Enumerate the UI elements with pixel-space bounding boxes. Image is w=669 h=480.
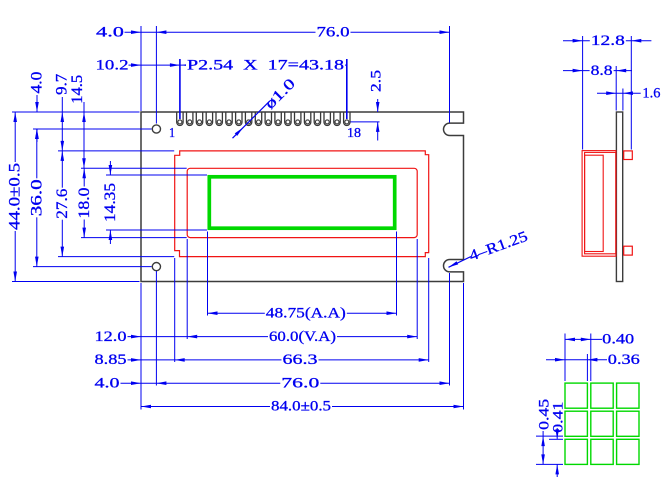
pin 1 — [177, 112, 183, 125]
dim 8.8 (bezel to pcb face) — [563, 70, 632, 72]
bezel tab bottom (side view) — [624, 246, 633, 255]
dim 60.0(V.A) — [187, 336, 417, 338]
pin 5 — [216, 112, 222, 125]
svg-text:P2.54 X 17=43.18: P2.54 X 17=43.18 — [187, 57, 344, 73]
dim 27.6 (bezel height) — [61, 151, 63, 257]
dim 14.35 (A.A. height) — [109, 161, 111, 175]
LCD bezel outline (outer red, 66.3 x 27.6) — [175, 151, 429, 257]
pin 4 — [206, 112, 212, 125]
extension line right slot (top) — [449, 26, 451, 123]
extension line bezel left (side top) — [582, 36, 584, 150]
pixel dot r1c1 — [565, 383, 587, 408]
pin 16 — [324, 112, 330, 125]
extension line V.A. bottom (left) — [81, 237, 187, 239]
svg-text:10.2: 10.2 — [96, 57, 129, 73]
dim 8.85 (left edge to bezel) — [128, 359, 175, 361]
pin 3 — [196, 112, 202, 125]
extension line bezel right (bottom) — [428, 258, 430, 362]
pin 17 — [334, 112, 340, 125]
extension line A.A. left (bottom) — [207, 232, 209, 316]
dim 44.0+-0.5 (pcb height) — [14, 112, 16, 282]
extension line bezel bottom (left) — [58, 256, 174, 258]
extension line A.A. bottom (left) — [106, 229, 207, 231]
leader dia 1.0 (pin hole diameter) — [233, 101, 270, 138]
extension line PCB left edge (top) — [140, 26, 142, 111]
extension line pcb right face (side) — [622, 89, 624, 111]
pin 2 — [187, 112, 193, 125]
extension line bezel top (left) — [58, 150, 174, 152]
extension line dot col1 left — [564, 334, 566, 382]
PCB outline (front view, 84.0 x 44.0) with edge slot notches — [141, 112, 464, 282]
extension line PCB bottom edge (left) — [12, 281, 140, 283]
dim 4.0 (left edge to hole, bottom) — [121, 382, 157, 384]
extension line dot col2 left — [590, 334, 592, 382]
dim 4.0 vertical (top edge to hole) — [36, 95, 38, 112]
svg-text:1.6: 1.6 — [642, 85, 660, 101]
svg-text:14.5: 14.5 — [69, 75, 86, 104]
svg-text:36.0: 36.0 — [28, 179, 45, 216]
dim 66.3 (bezel width) — [175, 359, 429, 361]
pin 13 — [295, 112, 301, 125]
svg-text:1: 1 — [169, 126, 175, 141]
svg-text:4.0: 4.0 — [96, 24, 124, 40]
dim 4.0 (left edge to hole, top row) — [125, 31, 157, 33]
svg-text:4–R1.25: 4–R1.25 — [467, 229, 530, 265]
svg-text:8.8: 8.8 — [591, 63, 613, 79]
svg-text:60.0(V.A): 60.0(V.A) — [269, 329, 336, 345]
svg-text:0.36: 0.36 — [608, 352, 641, 368]
dim 76.0 (hole to slot, bottom) — [156, 382, 449, 384]
extension line dot col1 right — [586, 354, 588, 381]
pin 8 — [245, 112, 251, 125]
pin 18 — [344, 112, 350, 125]
pixel dot r2c3 — [617, 411, 639, 436]
mounting hole top-left — [152, 125, 160, 133]
extension line tab right (side top) — [630, 36, 632, 150]
svg-text:66.3: 66.3 — [283, 352, 318, 368]
svg-text:0.40: 0.40 — [602, 332, 634, 348]
dim 14.5 (top edge to V.A.) — [83, 102, 85, 168]
svg-text:48.75(A.A): 48.75(A.A) — [266, 305, 346, 321]
pin 9 — [255, 112, 261, 125]
svg-text:4.0: 4.0 — [95, 375, 120, 391]
svg-text:8.85: 8.85 — [95, 352, 127, 368]
svg-text:18.0: 18.0 — [76, 188, 93, 219]
extension line bezel left (bottom) — [174, 258, 176, 362]
extension line A.A. right (bottom) — [396, 232, 398, 316]
dim 9.7 (top edge to bezel) — [61, 97, 63, 151]
extension line dot row3 bottom — [536, 463, 563, 465]
active area A.A. (green, 48.75 x 14.35) — [209, 177, 394, 228]
svg-text:0.41: 0.41 — [551, 402, 567, 433]
svg-text:76.0: 76.0 — [281, 375, 319, 391]
dim 0.41 (dot height) — [556, 428, 558, 439]
extension line A.A. top (left) — [106, 174, 207, 176]
extension line V.A. right (bottom) — [416, 239, 418, 339]
dim 0.36 (dot width) — [546, 359, 607, 361]
svg-text:76.0: 76.0 — [317, 24, 350, 40]
pixel dot r1c3 — [617, 383, 639, 408]
extension line left hole center (top) — [155, 26, 157, 124]
dim 12.8 (module total thickness) — [563, 40, 651, 42]
mounting hole bottom-left — [152, 263, 160, 271]
extension line dot row2 bottom — [536, 435, 563, 437]
pin 14 — [304, 112, 310, 125]
PCB side view (1.6 thick) — [616, 112, 622, 282]
dim 1.6 (pcb thickness) — [597, 92, 641, 94]
LCD bezel side view inner wall — [585, 152, 616, 253]
LCD glass cavity side view — [585, 155, 604, 251]
pixel dot r2c2 — [591, 411, 613, 436]
svg-text:12.0: 12.0 — [95, 329, 127, 345]
dim 0.40 (dot pitch horizontal) — [565, 338, 602, 340]
bezel tab top (side view) — [624, 151, 633, 160]
pin 7 — [236, 112, 242, 125]
extension line PCB right (bottom) — [463, 283, 465, 410]
extension line pin 1 center — [179, 59, 181, 119]
pin 6 — [226, 112, 232, 125]
pixel dot r2c1 — [565, 411, 587, 436]
dim 76.0 (hole to slot, top row) — [156, 31, 449, 33]
svg-text:44.0±0.5: 44.0±0.5 — [6, 163, 23, 230]
extension line pin 18 center — [346, 59, 348, 119]
extension line V.A. left (bottom) — [186, 239, 188, 339]
extension line PCB left (bottom) — [140, 283, 142, 410]
svg-text:84.0±0.5: 84.0±0.5 — [271, 399, 331, 415]
svg-text:2.5: 2.5 — [368, 70, 384, 92]
dim 18.0 (V.A. height) — [83, 168, 85, 237]
extension line dot row3 top — [549, 438, 563, 440]
extension line PCB top edge (left) — [12, 111, 140, 113]
dim 10.2 (left edge to pin 1) — [129, 64, 180, 66]
extension line hole center (bottom) — [155, 271, 157, 386]
dim 12.0 (left edge to V.A.) — [128, 336, 188, 338]
svg-text:14.35: 14.35 — [102, 183, 119, 222]
dim 2.5 (pcb edge to pin hole center) — [351, 121, 380, 123]
svg-text:9.7: 9.7 — [53, 74, 70, 95]
dim 84.0+-0.5 (pcb width) — [141, 406, 464, 408]
pin 11 — [275, 112, 281, 125]
pin 15 — [314, 112, 320, 125]
extension line V.A. top (left) — [81, 167, 187, 169]
extension line bottom hole (left) — [33, 266, 152, 268]
svg-text:ø1.0: ø1.0 — [262, 76, 299, 113]
pixel dot r3c1 — [565, 439, 587, 464]
extension line top hole (left) — [33, 128, 152, 130]
pixel dot r3c2 — [591, 439, 613, 464]
extension line pcb left face (side) — [615, 66, 617, 111]
svg-text:18: 18 — [347, 126, 361, 141]
dim P2.54 X 17=43.18 (pin pitch) — [180, 64, 347, 66]
pin 10 — [265, 112, 271, 125]
pixel dot r1c2 — [591, 383, 613, 408]
viewing area V.A. (inner red, 60.0 x 18.0) — [187, 168, 417, 237]
dim 0.45 (dot pitch vertical) — [542, 431, 544, 464]
pin 12 — [285, 112, 291, 125]
extension line slot center (bottom) — [449, 273, 451, 386]
svg-text:12.8: 12.8 — [591, 33, 625, 49]
pixel dot r3c3 — [617, 439, 639, 464]
dim 36.0 (hole spacing vertical) — [36, 129, 38, 267]
LCD bezel side view outer wall — [582, 151, 616, 257]
svg-text:4.0: 4.0 — [28, 72, 45, 94]
svg-text:27.6: 27.6 — [54, 189, 71, 219]
dim 48.75(A.A) — [208, 312, 397, 314]
leader 4-R1.25 (slot radius) — [449, 257, 472, 268]
